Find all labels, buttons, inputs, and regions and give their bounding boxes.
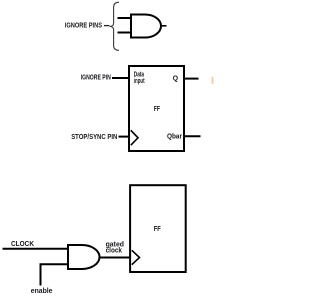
wire IGNORE PIN to data input of U2 [112,77,130,79]
clock triangle on U3 [132,250,140,264]
svg-text:enable: enable [31,288,53,295]
AND gate U1 (ignored-pins gate) [131,15,161,38]
wire Qbar output of U2 [184,135,201,137]
wire STOP/SYNC PIN to clock of U2 [119,136,131,138]
AND gate U4 (clock gating) [68,245,100,269]
svg-text:FF: FF [154,226,162,233]
flip-flop U2 box [129,66,184,151]
svg-text:IGNORE PIN: IGNORE PIN [81,75,111,82]
svg-text:FF: FF [154,106,161,113]
flip-flop U3 box [130,185,186,272]
wire gated clock from U4 to clock of U3 [100,257,132,259]
svg-text:Qbar: Qbar [167,133,182,140]
wire Q output of U2 [184,78,199,80]
clock triangle on U2 [131,130,138,145]
svg-text:IGNORE PINS: IGNORE PINS [65,23,102,30]
tick from label to brace [104,25,110,27]
svg-text:CLOCK: CLOCK [11,241,34,248]
svg-text:Datainput: Datainput [134,72,145,85]
wire enable to AND gate U4 [41,264,69,285]
text cursor caret [212,77,214,84]
svg-text:Q: Q [173,76,179,83]
svg-text:gatedclock: gatedclock [106,241,124,254]
wire input A to AND gate U1 [118,17,132,19]
wire U1 output stub [161,25,167,27]
wire input B to AND gate U1 [118,32,132,34]
brace grouping ignored pins [110,2,119,50]
wire CLOCK to AND gate U4 [3,248,69,250]
svg-text:STOP/SYNC PIN: STOP/SYNC PIN [71,134,117,141]
